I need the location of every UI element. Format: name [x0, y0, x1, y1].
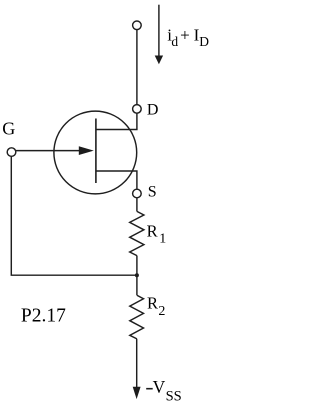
svg-text:V: V	[153, 377, 166, 397]
svg-text:R: R	[147, 221, 158, 240]
svg-text:P2.17: P2.17	[21, 305, 66, 326]
svg-text:SS: SS	[166, 388, 182, 403]
svg-text:d: d	[171, 34, 178, 49]
svg-text:G: G	[2, 118, 15, 138]
svg-text:S: S	[148, 184, 157, 201]
svg-text:2: 2	[158, 304, 165, 319]
svg-text:+: +	[180, 25, 190, 44]
svg-text:R: R	[147, 294, 158, 313]
svg-text:D: D	[147, 102, 159, 119]
svg-text:1: 1	[159, 232, 166, 247]
svg-text:D: D	[199, 34, 209, 49]
